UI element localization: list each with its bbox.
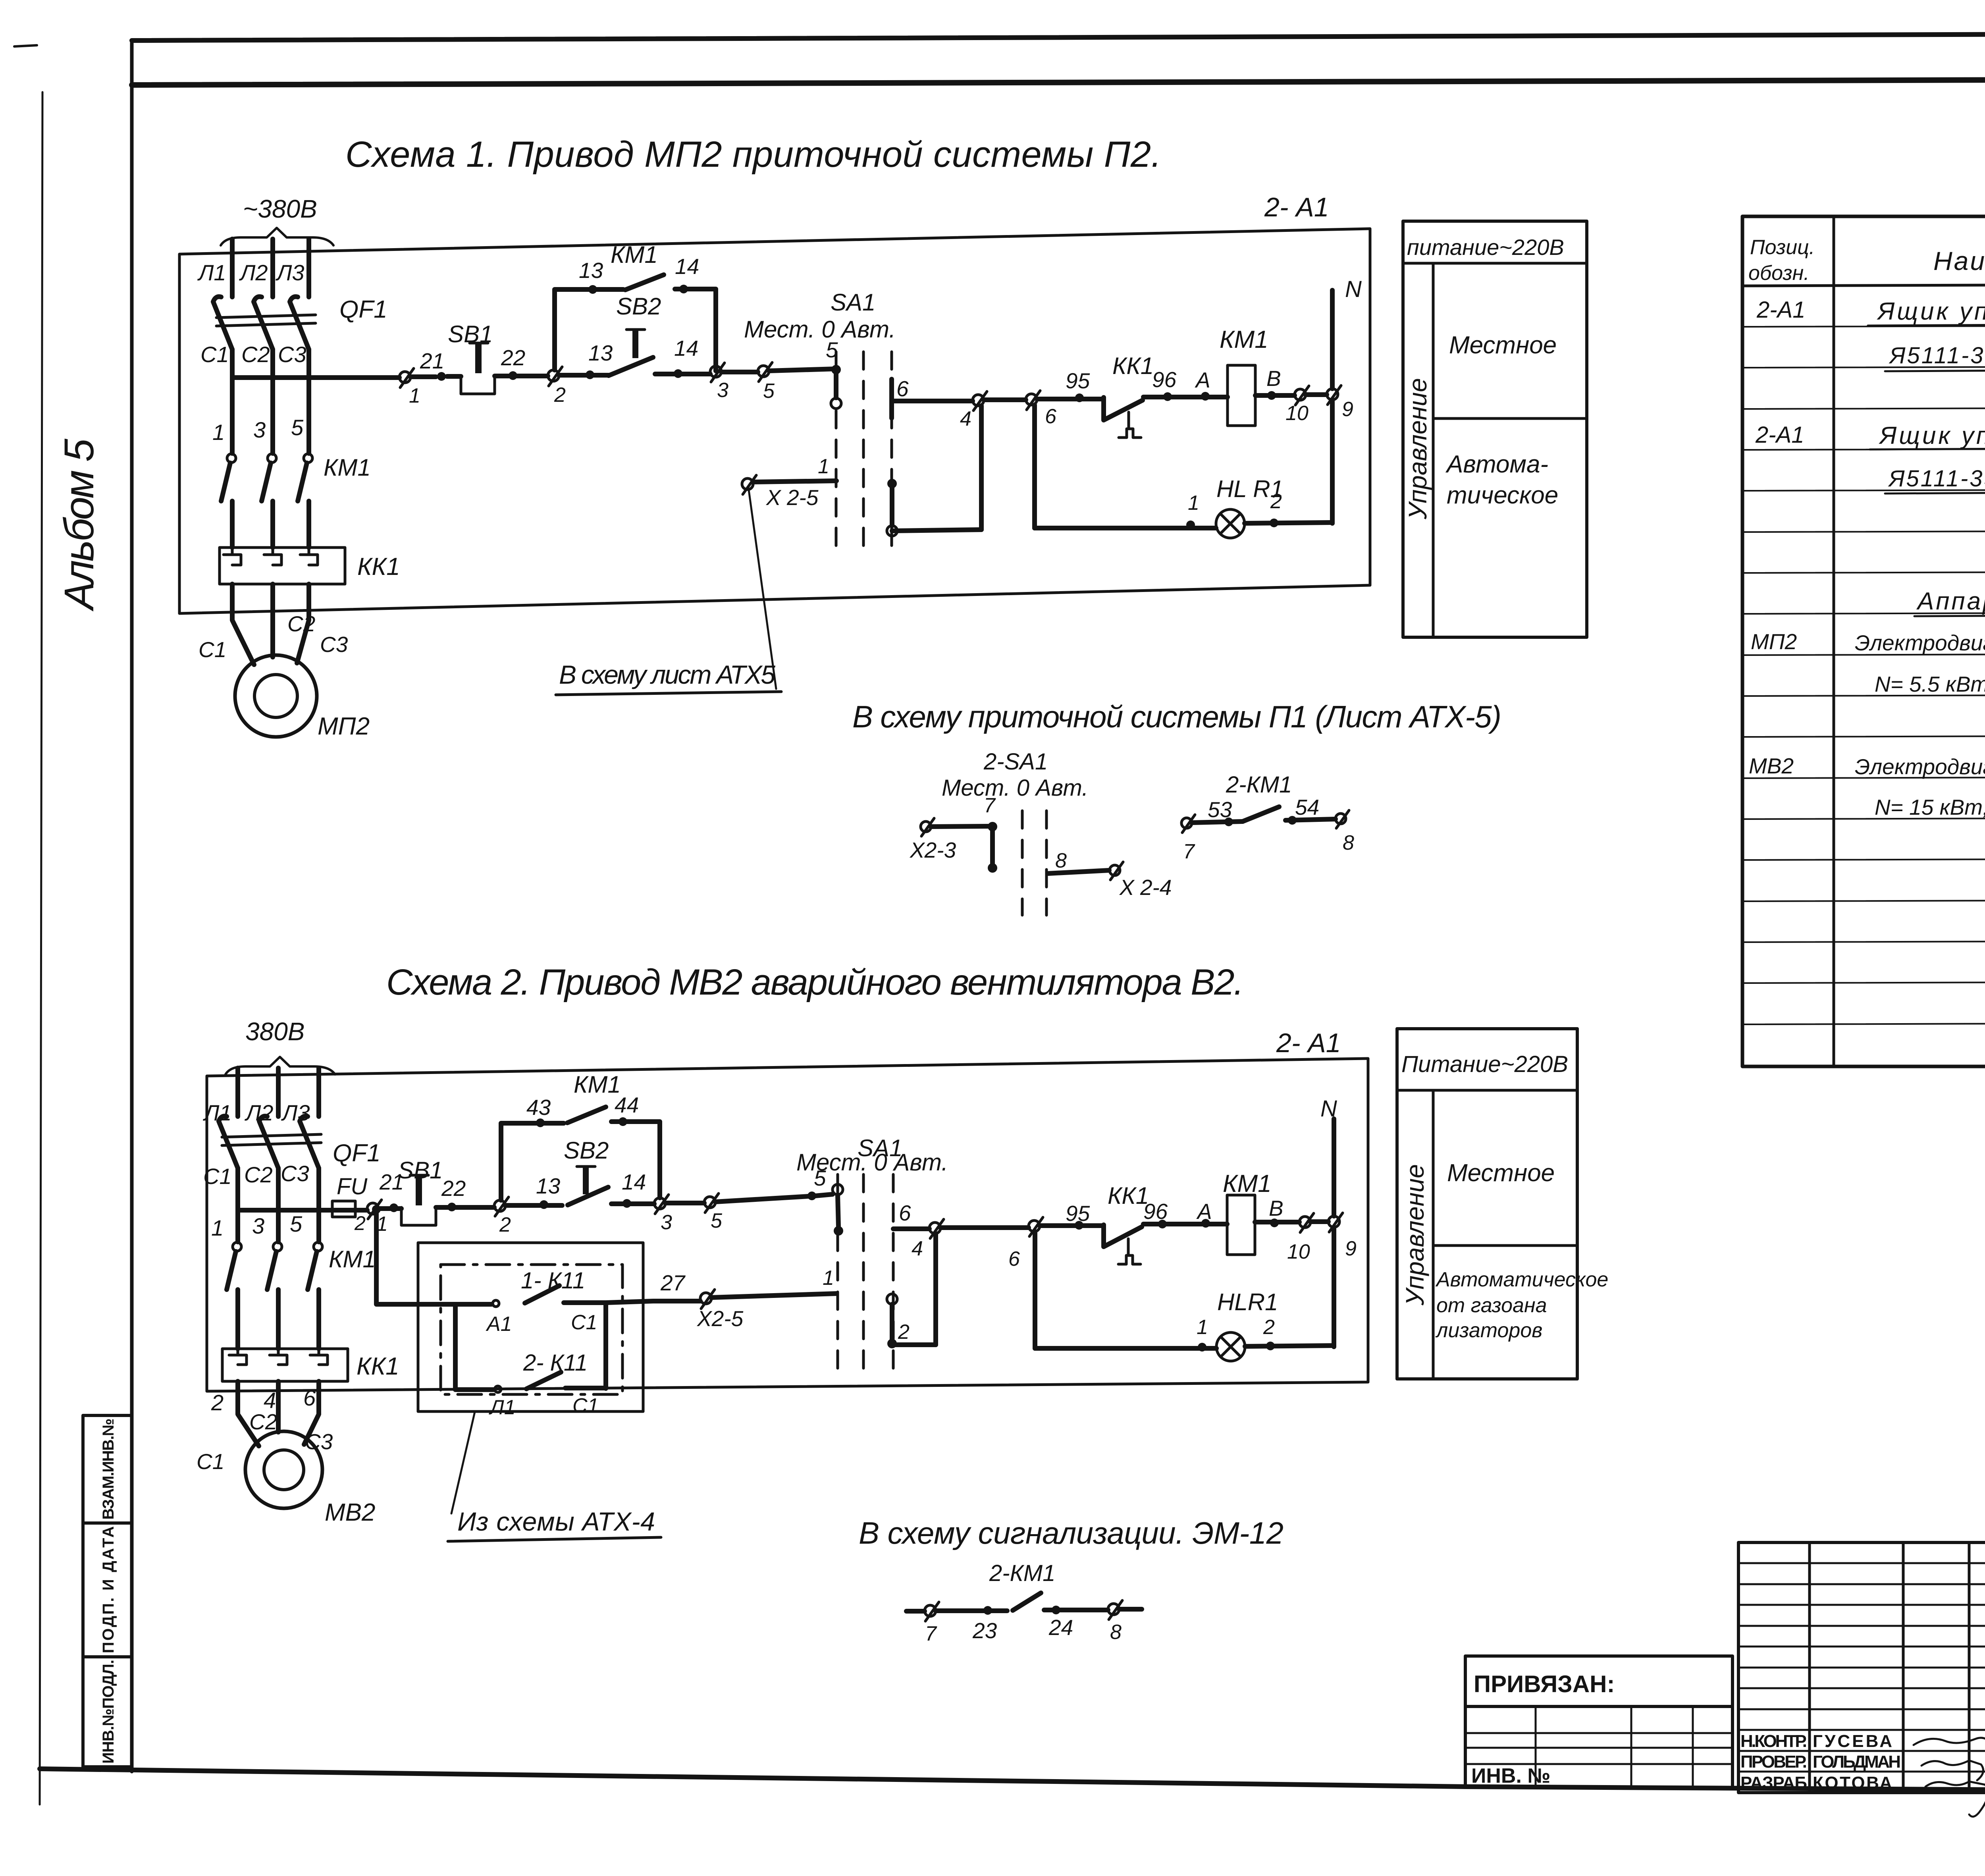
column line pos (1833, 216, 1835, 1066)
svg-text:ГУСЕВА: ГУСЕВА (1813, 1731, 1892, 1751)
svg-text:1: 1 (212, 420, 225, 445)
terminal circle 9 (1328, 1216, 1339, 1227)
bridge bar (988, 822, 997, 831)
KM1 aux contact blade (625, 275, 664, 290)
central small grid (1738, 1542, 1985, 1793)
phase wire low2 (270, 501, 275, 548)
header row line (1742, 283, 1985, 286)
svg-text:МВ2: МВ2 (1749, 754, 1794, 778)
left frame border (130, 40, 134, 1772)
tap to relay contacts (372, 1205, 381, 1214)
svg-text:обозн.: обозн. (1748, 262, 1810, 285)
svg-text:24: 24 (1048, 1615, 1073, 1640)
svg-text:ИНВ. №: ИНВ. № (1471, 1764, 1550, 1787)
svg-text:96: 96 (1152, 367, 1177, 392)
motor MP2 (235, 655, 317, 737)
brace (225, 1057, 335, 1074)
SA1 position dashes (838, 1174, 893, 1375)
control rung A wire (232, 369, 836, 378)
control rung A wire (238, 1194, 833, 1210)
svg-text:1: 1 (409, 384, 420, 407)
svg-text:10: 10 (1287, 1240, 1310, 1263)
svg-text:Я5111-3574УХЛ4: Я5111-3574УХЛ4 (1888, 466, 1985, 492)
svg-text:Н.КОНТР.: Н.КОНТР. (1740, 1731, 1807, 1751)
drop from 4 (979, 406, 984, 530)
drop from 6 (1032, 405, 1037, 528)
svg-text:21: 21 (420, 349, 444, 373)
svg-text:1: 1 (211, 1215, 224, 1240)
svg-text:380В: 380В (245, 1017, 304, 1046)
svg-text:2- К11: 2- К11 (523, 1350, 588, 1376)
svg-text:Ящик управления: Ящик управления (1879, 422, 1985, 449)
loop verticals (453, 1304, 458, 1390)
svg-text:Мест. 0 Авт.: Мест. 0 Авт. (796, 1149, 948, 1176)
drop from 6 (1033, 1232, 1037, 1348)
row lines (1742, 325, 1985, 1024)
svg-text:23: 23 (972, 1618, 997, 1643)
TABLE (1742, 216, 1985, 1066)
svg-text:Альбом 5: Альбом 5 (56, 438, 102, 612)
terminal circle 5 (758, 366, 769, 377)
svg-text:3: 3 (717, 379, 728, 402)
svg-text:КМ1: КМ1 (1220, 326, 1268, 353)
svg-text:2-SА1: 2-SА1 (983, 749, 1048, 775)
top border lower line (132, 79, 1985, 85)
svg-text:Местное: Местное (1447, 1159, 1555, 1187)
svg-text:2: 2 (354, 1212, 366, 1234)
contactor KM1 pole3 (314, 1242, 322, 1251)
outer left thin line (40, 92, 42, 1805)
relay outer box (418, 1243, 643, 1411)
svg-text:Управление: Управление (1401, 1164, 1429, 1306)
svg-text:С2: С2 (244, 1162, 273, 1187)
bottom link to SA1 (892, 530, 981, 531)
breaker QF1 pole1 (213, 297, 232, 349)
TITLEBLOCK (1465, 1542, 1985, 1844)
svg-text:2- А1: 2- А1 (1264, 192, 1329, 222)
MIDLINK (852, 699, 1501, 915)
svg-text:2-КМ1: 2-КМ1 (1226, 772, 1292, 798)
svg-text:С2: С2 (249, 1409, 277, 1434)
svg-text:4: 4 (912, 1237, 923, 1260)
contactor KM1 pole1 (233, 1242, 241, 1251)
junction (437, 372, 446, 381)
svg-text:Схема 1. Привод МП2 приточной: Схема 1. Привод МП2 приточной системы П2… (345, 134, 1161, 175)
svg-text:14: 14 (622, 1170, 646, 1194)
terminal circle 10 (1299, 1217, 1310, 1228)
svg-text:22: 22 (441, 1176, 466, 1201)
svg-text:QF1: QF1 (339, 296, 387, 323)
neutral wire N (1332, 1119, 1336, 1216)
svg-text:3: 3 (253, 417, 266, 442)
SA1 bridge bottom right (887, 1294, 897, 1304)
phase wire low3 (316, 1290, 321, 1349)
privyazan box (1465, 1656, 1733, 1788)
lamp rung wire (1035, 523, 1332, 528)
svg-text:2: 2 (1263, 1316, 1275, 1339)
svg-text:С2: С2 (241, 342, 270, 367)
svg-text:Электродвигатель 4А160М6: Электродвигатель 4А160М6 (1855, 754, 1985, 779)
svg-text:В: В (1269, 1196, 1284, 1220)
svg-text:14: 14 (674, 336, 698, 361)
phase wire L3 (306, 239, 311, 297)
svg-text:3: 3 (252, 1213, 264, 1238)
svg-text:Аппаратура по месту: Аппаратура по месту (1916, 588, 1985, 615)
svg-text:С3: С3 (305, 1429, 333, 1454)
terminal circle 1 (399, 372, 410, 383)
svg-text:N= 5.5 кВт; ~380 В.: N= 5.5 кВт; ~380 В. (1875, 672, 1985, 696)
svg-text:С3: С3 (281, 1161, 309, 1186)
terminal circle 1 (367, 1203, 378, 1214)
svg-text:Х2-5: Х2-5 (696, 1306, 744, 1331)
svg-text:С1: С1 (571, 1311, 597, 1334)
motor leads (238, 1381, 259, 1446)
svg-text:Л1: Л1 (489, 1396, 516, 1419)
breaker QF1 pole1 (219, 1116, 238, 1168)
terminal X2-3 (921, 821, 931, 832)
breaker QF1 pole2 (259, 1116, 278, 1168)
contactor KM1 pole3 (304, 454, 312, 463)
phase wire mid3 (316, 1168, 321, 1242)
svg-text:2: 2 (211, 1390, 224, 1415)
svg-text:HLR1: HLR1 (1217, 1289, 1278, 1315)
svg-text:SB2: SB2 (616, 293, 661, 320)
svg-text:53: 53 (1208, 797, 1232, 822)
phase wire low1 (230, 501, 235, 548)
svg-text:1: 1 (1197, 1316, 1208, 1339)
phase wire mid2 (270, 349, 275, 453)
heater elements (229, 1350, 247, 1365)
motor leads (232, 584, 254, 665)
SIGLINK (859, 1515, 1284, 1645)
note from ATX-4 (451, 1412, 475, 1514)
svg-text:Управление: Управление (1403, 378, 1432, 520)
svg-text:SА1: SА1 (831, 289, 875, 316)
svg-text:Х 2-4: Х 2-4 (1119, 875, 1172, 900)
svg-text:КМ1: КМ1 (574, 1071, 621, 1098)
fuse FU (332, 1201, 355, 1217)
breaker tie bars (216, 315, 316, 318)
svg-text:С1: С1 (197, 1449, 224, 1474)
svg-text:Ящик управления: Ящик управления (1877, 298, 1985, 325)
svg-text:ПРИВЯЗАН:: ПРИВЯЗАН: (1474, 1671, 1615, 1697)
svg-text:2: 2 (554, 384, 566, 407)
svg-text:14: 14 (675, 254, 699, 279)
terminal circle 3 (654, 1198, 665, 1209)
lamp rung wire (1035, 1346, 1334, 1348)
phase wire low2 (276, 1290, 281, 1349)
KM1 self-hold branch (555, 289, 716, 371)
svg-text:13: 13 (588, 341, 613, 365)
phase wire low3 (306, 501, 311, 548)
svg-text:ИНВ.№ПОДЛ.: ИНВ.№ПОДЛ. (100, 1660, 117, 1764)
terminal circle 4 (929, 1222, 940, 1234)
svg-text:Л3: Л3 (281, 1100, 310, 1125)
terminal circle 4 (973, 395, 984, 406)
svg-text:А1: А1 (486, 1313, 512, 1336)
svg-text:9: 9 (1342, 398, 1353, 421)
contact 2-KM1 wire (906, 1609, 1142, 1611)
svg-text:3: 3 (661, 1211, 672, 1234)
relay inner box dash-dot (441, 1265, 622, 1394)
contactor KM1 pole2 (273, 1242, 282, 1251)
control rung B wire (893, 1222, 1328, 1229)
svg-text:FU: FU (337, 1174, 368, 1199)
svg-text:2: 2 (898, 1321, 910, 1344)
svg-text:2-А1: 2-А1 (1755, 422, 1804, 448)
svg-text:27: 27 (660, 1271, 686, 1295)
svg-text:96: 96 (1143, 1199, 1168, 1224)
svg-text:КМ1: КМ1 (329, 1246, 376, 1273)
terminal circle 6 (1029, 1220, 1040, 1232)
svg-text:Автома-: Автома- (1445, 451, 1548, 478)
svg-text:1: 1 (1188, 492, 1199, 515)
svg-text:N: N (1345, 276, 1362, 302)
svg-text:Мест. 0 Авт.: Мест. 0 Авт. (744, 316, 896, 343)
svg-text:РАЗРАБ: РАЗРАБ (1740, 1773, 1807, 1793)
terminal circle 5 (704, 1197, 715, 1208)
bottom frame line (40, 1769, 1985, 1793)
svg-text:6: 6 (1008, 1247, 1020, 1271)
phase wire L1 (235, 1068, 240, 1116)
svg-text:13: 13 (579, 258, 603, 283)
svg-text:5: 5 (291, 415, 304, 440)
control rung B wire (892, 395, 1327, 401)
svg-text:2: 2 (499, 1213, 511, 1236)
breaker QF1 pole3 (290, 297, 309, 349)
drop from 4 (933, 1234, 938, 1345)
top border upper line (132, 33, 1985, 40)
svg-text:Местное: Местное (1449, 332, 1557, 359)
phase wire mid1 (230, 349, 235, 453)
X2-5 terminal wire (742, 478, 753, 490)
svg-text:13: 13 (536, 1174, 561, 1198)
svg-text:ПРОВЕР.: ПРОВЕР. (1740, 1752, 1807, 1772)
SA1 bridge top left (833, 1184, 843, 1195)
svg-text:Автоматическое: Автоматическое (1435, 1268, 1608, 1291)
svg-text:9: 9 (1345, 1237, 1357, 1260)
svg-text:В схему сигнализации. ЭМ-12: В схему сигнализации. ЭМ-12 (859, 1515, 1284, 1550)
phase wire L1 (230, 239, 235, 297)
svg-text:43: 43 (526, 1095, 551, 1120)
svg-text:5: 5 (763, 380, 775, 403)
svg-text:КК1: КК1 (357, 1353, 399, 1380)
svg-text:Позиц.: Позиц. (1750, 236, 1815, 259)
dashes 2-SA1 (1022, 811, 1046, 915)
breaker tie bars (222, 1134, 321, 1137)
control box pitanie (1397, 1029, 1577, 1379)
svg-text:Из схемы АТХ-4: Из схемы АТХ-4 (457, 1507, 655, 1536)
control box pitanie (1403, 221, 1587, 637)
svg-text:Х2-3: Х2-3 (909, 838, 956, 862)
svg-text:N= 15 кВт; ~380 В.: N= 15 кВт; ~380 В. (1875, 795, 1985, 819)
svg-text:А: А (1195, 368, 1210, 392)
svg-text:6: 6 (303, 1385, 316, 1410)
SA1 bridge right top tick (889, 379, 894, 418)
KM1 self-hold branch (501, 1122, 660, 1200)
contactor KM1 pole2 (268, 454, 276, 463)
svg-text:лизаторов: лизаторов (1435, 1319, 1542, 1342)
svg-text:Наименование: Наименование (1933, 246, 1985, 276)
svg-text:8: 8 (1055, 849, 1067, 872)
svg-text:МП2: МП2 (1751, 629, 1797, 654)
contactor KM1 pole1 (227, 454, 236, 463)
svg-text:С1: С1 (572, 1394, 599, 1417)
svg-text:Электродвигатель 4А112М4: Электродвигатель 4А112М4 (1855, 630, 1985, 655)
svg-text:6: 6 (1045, 405, 1056, 428)
bottom link to SA1 (892, 1342, 936, 1347)
svg-text:тическое: тическое (1447, 482, 1558, 509)
svg-text:В: В (1266, 366, 1281, 391)
svg-text:8: 8 (1343, 831, 1354, 854)
phase wire mid2 (276, 1168, 281, 1242)
breaker QF1 pole3 (300, 1116, 319, 1168)
svg-text:МП2: МП2 (318, 713, 370, 740)
svg-text:6: 6 (896, 376, 909, 401)
phase wire mid1 (235, 1168, 240, 1242)
SIDEBAR (56, 438, 132, 1767)
signatures squiggles (1914, 1738, 1985, 1745)
SCHEMA2 (197, 962, 1608, 1541)
spec table outer box (1742, 216, 1985, 1066)
svg-text:54: 54 (1295, 795, 1319, 819)
svg-text:от газоана: от газоана (1436, 1294, 1547, 1317)
svg-text:1: 1 (823, 1267, 834, 1290)
phase wire mid3 (306, 349, 311, 453)
brace (221, 228, 333, 245)
svg-text:1: 1 (818, 455, 829, 478)
svg-text:Я5111-3174 УХЛ4: Я5111-3174 УХЛ4 (1889, 343, 1985, 368)
svg-text:С1: С1 (203, 1164, 232, 1189)
junction 5 at SA1 (807, 1192, 816, 1200)
phase wire L2 (276, 1068, 281, 1116)
svg-text:КК1: КК1 (1112, 353, 1154, 379)
svg-text:ГОЛЬДМАН: ГОЛЬДМАН (1813, 1752, 1901, 1772)
svg-text:2- А1: 2- А1 (1276, 1028, 1341, 1058)
svg-text:Л1: Л1 (197, 260, 226, 285)
svg-text:ВЗАМ.ИНВ.№: ВЗАМ.ИНВ.№ (100, 1419, 117, 1520)
junction (389, 1203, 398, 1212)
svg-text:4: 4 (960, 407, 971, 430)
terminal circle 9 (1327, 389, 1338, 400)
leader to note (749, 490, 776, 689)
svg-text:Мест. 0 Авт.: Мест. 0 Авт. (942, 775, 1088, 801)
svg-text:10: 10 (1285, 402, 1309, 425)
svg-text:Л3: Л3 (276, 260, 304, 285)
terminal circle 2 (494, 1200, 505, 1211)
enclosure box 2-A1 (207, 1059, 1368, 1391)
SA1 bridge top left (831, 365, 841, 374)
svg-text:Л2: Л2 (239, 260, 268, 285)
top-left tick (14, 45, 37, 46)
svg-text:В схему приточной системы П1 (: В схему приточной системы П1 (Лист АТХ-5… (852, 699, 1501, 734)
phase wire L3 (316, 1068, 321, 1116)
SCHEMA1 (179, 134, 1587, 740)
terminal circle 2 (548, 370, 559, 381)
svg-text:С2: С2 (287, 611, 315, 636)
svg-text:КМ1: КМ1 (1223, 1170, 1272, 1197)
phase wire L2 (270, 239, 275, 297)
svg-text:КМ1: КМ1 (611, 241, 658, 268)
svg-text:2-КМ1: 2-КМ1 (989, 1560, 1055, 1586)
phase wire low1 (235, 1290, 240, 1349)
terminal circle 3 (710, 366, 721, 377)
terminal circle 10 (1295, 389, 1306, 400)
svg-text:С3: С3 (320, 632, 348, 657)
breaker QF1 pole2 (254, 297, 273, 349)
svg-text:~380В: ~380В (243, 195, 317, 223)
svg-text:питание~220В: питание~220В (1407, 235, 1564, 260)
svg-text:95: 95 (1066, 368, 1090, 393)
SA1 bridge bottom right (887, 479, 897, 488)
motor MV2 (245, 1431, 322, 1508)
svg-text:5: 5 (711, 1209, 723, 1232)
svg-text:7: 7 (1183, 840, 1195, 863)
signature rows (1740, 1731, 1901, 1793)
enclosure box 2-A1 (179, 229, 1370, 613)
svg-text:С3: С3 (278, 342, 306, 367)
svg-text:4: 4 (264, 1388, 276, 1413)
stamp column box (83, 1415, 132, 1767)
terminal circle 6 (1026, 394, 1037, 405)
svg-text:2: 2 (1270, 490, 1282, 513)
svg-text:КМ1: КМ1 (324, 454, 371, 481)
svg-text:МВ2: МВ2 (325, 1499, 375, 1526)
svg-text:КК1: КК1 (357, 553, 400, 580)
svg-text:С1: С1 (200, 342, 229, 367)
svg-text:SВ2: SВ2 (564, 1137, 609, 1164)
thermal relay KK1 box (222, 1349, 348, 1381)
svg-text:В схему лист АТХ5: В схему лист АТХ5 (559, 660, 775, 689)
svg-text:5: 5 (290, 1211, 303, 1236)
thermal relay KK1 box (220, 548, 345, 584)
svg-text:2-А1: 2-А1 (1756, 297, 1806, 323)
neutral wire N (1330, 290, 1335, 389)
svg-text:N: N (1320, 1096, 1337, 1122)
svg-text:ПОДП. И ДАТА: ПОДП. И ДАТА (100, 1526, 117, 1653)
svg-text:КОТОВА: КОТОВА (1813, 1773, 1892, 1793)
svg-text:Питание~220В: Питание~220В (1401, 1051, 1568, 1077)
heater elements (224, 549, 241, 565)
svg-text:22: 22 (501, 345, 525, 370)
svg-text:Х 2-5: Х 2-5 (765, 485, 819, 510)
svg-text:7: 7 (984, 794, 996, 817)
svg-text:8: 8 (1110, 1621, 1122, 1644)
svg-text:Схема 2. Привод МВ2 аварийного: Схема 2. Привод МВ2 аварийного вентилято… (386, 962, 1244, 1003)
svg-text:6: 6 (899, 1201, 911, 1225)
svg-text:7: 7 (925, 1622, 937, 1645)
exit wire to X2-5 (606, 1294, 836, 1303)
SA1 position dashes (836, 352, 892, 553)
svg-text:КК1: КК1 (1108, 1182, 1149, 1209)
svg-text:С1: С1 (198, 637, 226, 662)
svg-text:QF1: QF1 (333, 1139, 381, 1167)
underlines (1868, 324, 1985, 616)
